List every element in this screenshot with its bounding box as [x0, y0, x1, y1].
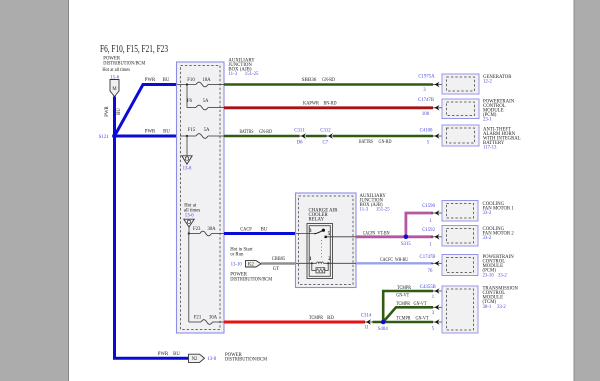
- relay K (double border box): [307, 224, 333, 279]
- svg-text:DISTRIBUTION/BCM: DISTRIBUTION/BCM: [103, 61, 146, 66]
- svg-text:VT-BN: VT-BN: [378, 231, 390, 236]
- svg-text:CACP: CACP: [240, 227, 252, 232]
- cooling fan motor 2 box: [442, 226, 478, 247]
- svg-text:K2: K2: [248, 263, 254, 268]
- svg-text:5A: 5A: [203, 99, 209, 104]
- svg-text:5A: 5A: [204, 128, 210, 133]
- svg-text:TCMPR: TCMPR: [397, 286, 412, 291]
- svg-text:13-8: 13-8: [207, 357, 216, 362]
- wire BATTRS GN-RD (green, left segment): [224, 135, 300, 138]
- wire diagonal S121 to top feed: [115, 85, 178, 137]
- svg-text:D6: D6: [297, 141, 303, 146]
- right gray margin band: [574, 0, 600, 381]
- svg-text:18A: 18A: [202, 78, 211, 83]
- wire KAPWR BN-RD (dark red, to PCM): [224, 106, 433, 109]
- svg-text:BU: BU: [173, 352, 180, 357]
- svg-text:151-25: 151-25: [245, 72, 259, 77]
- svg-text:76: 76: [428, 269, 433, 274]
- svg-text:BU: BU: [261, 227, 268, 232]
- svg-text:GN-VT: GN-VT: [396, 293, 409, 298]
- svg-text:M: M: [112, 87, 117, 92]
- svg-text:F15: F15: [188, 128, 196, 133]
- svg-text:33-2: 33-2: [483, 211, 492, 216]
- connector C1590 pin 1: [422, 204, 446, 224]
- wire SBB36 GN-RD (green, to generator): [224, 83, 433, 86]
- connector C1592 pin 1: [422, 228, 446, 247]
- svg-text:C312: C312: [320, 128, 331, 133]
- fuse F21 30A: [189, 316, 224, 325]
- wire PWR BU vertical from M down and across to N2: [115, 97, 189, 359]
- wire BATTRS middle segment: [306, 135, 327, 138]
- splice S121: [112, 134, 117, 139]
- svg-text:PWR: PWR: [158, 352, 169, 357]
- cooling fan motor 2 label: [483, 227, 515, 241]
- svg-text:BU: BU: [117, 108, 122, 115]
- svg-text:C314: C314: [361, 314, 372, 319]
- relay pin 5: [325, 236, 327, 238]
- connector C311 pin D6: [294, 128, 306, 145]
- svg-text:CACFC: CACFC: [380, 258, 393, 263]
- connector C4355B pin 1: [420, 285, 447, 300]
- junction dot F23: [188, 232, 190, 234]
- connector pin 3: [431, 305, 447, 317]
- svg-text:30A: 30A: [207, 227, 216, 232]
- svg-text:100: 100: [422, 112, 430, 117]
- svg-text:WH-BU: WH-BU: [395, 258, 408, 263]
- svg-text:C1592: C1592: [422, 228, 435, 233]
- svg-text:F10: F10: [187, 78, 195, 83]
- wire CACP BU (blue, to relay): [224, 232, 296, 235]
- connector C314 pin 11: [361, 314, 374, 331]
- relay suppression resistor: [312, 263, 328, 273]
- connector C312 pin C7: [320, 128, 333, 145]
- svg-text:33-2: 33-2: [497, 305, 506, 310]
- cooling fan motor 1 box: [442, 201, 478, 222]
- off-page triangle ref (above F23): [184, 219, 194, 227]
- svg-text:GN-RD: GN-RD: [259, 130, 272, 135]
- connector C1975A pin 3: [418, 75, 446, 93]
- label POWER DISTRIBUTION/BCM (K2): [230, 273, 273, 283]
- AJB relay label: [360, 194, 391, 213]
- connector M (power feed, pentagon down): [110, 80, 119, 97]
- relay switch arm: [314, 230, 323, 234]
- internal bus wire F23 to F21: [188, 234, 190, 323]
- auxiliary junction box (AJB) relay section: [296, 193, 357, 288]
- svg-text:BU: BU: [163, 130, 170, 135]
- svg-text:13-8: 13-8: [183, 167, 192, 172]
- svg-text:11-3: 11-3: [360, 208, 369, 213]
- svg-text:C1747B: C1747B: [418, 98, 434, 103]
- svg-text:117-13: 117-13: [483, 146, 497, 151]
- svg-text:11-3: 11-3: [228, 72, 237, 77]
- relay pin 3 input wire: [296, 233, 315, 235]
- svg-text:13-10: 13-10: [231, 262, 243, 267]
- PCM box (bottom): [442, 255, 478, 276]
- svg-text:GT: GT: [273, 267, 279, 272]
- wire TCMPR GN-VT to S404: [373, 321, 434, 324]
- svg-text:GN-RD: GN-RD: [379, 140, 392, 145]
- charge air cooler relay label: [309, 209, 339, 223]
- svg-text:30A: 30A: [209, 316, 218, 321]
- connector K2 (pentagon right): [246, 261, 262, 268]
- svg-text:33-2: 33-2: [498, 273, 507, 278]
- connector C1747B pin 100: [418, 98, 447, 117]
- svg-text:KAPWR: KAPWR: [303, 101, 320, 106]
- splice S404: [381, 320, 386, 325]
- svg-text:or Run: or Run: [230, 253, 244, 258]
- svg-text:C4355B: C4355B: [420, 285, 436, 290]
- fuse F10 10A: [177, 78, 224, 87]
- svg-text:F23: F23: [193, 227, 201, 232]
- svg-text:23-1: 23-1: [483, 118, 492, 123]
- svg-text:S121: S121: [99, 135, 109, 140]
- generator label: [483, 75, 512, 85]
- connector pin 5: [431, 319, 447, 331]
- svg-text:RD: RD: [327, 316, 334, 321]
- svg-text:BATTRS: BATTRS: [240, 130, 254, 135]
- TCM box: [442, 286, 478, 333]
- svg-text:S315: S315: [401, 242, 411, 247]
- connector C1747B pin 76: [420, 255, 447, 274]
- PCM box (top): [442, 99, 479, 119]
- PCM label (top): [483, 100, 515, 123]
- svg-text:S404: S404: [378, 327, 388, 332]
- generator box: [442, 74, 479, 94]
- auxiliary junction box (AJB) fuse panel: [177, 62, 225, 333]
- svg-text:TCMPR: TCMPR: [396, 302, 411, 307]
- svg-text:13-6: 13-6: [185, 213, 194, 218]
- svg-text:CACFN: CACFN: [363, 231, 376, 236]
- wire BATTRS GN-RD (green, right segment): [333, 135, 433, 138]
- svg-text:PWR: PWR: [145, 78, 156, 83]
- wire S404 up to TCM pin 1: [383, 291, 433, 322]
- wire CBB05 GT (gray): [261, 262, 296, 264]
- svg-text:RELAY: RELAY: [309, 218, 325, 223]
- wire S315 to fan motor 2: [406, 235, 433, 238]
- PCM label (bottom): [483, 255, 515, 278]
- svg-text:BN-RD: BN-RD: [324, 101, 337, 106]
- anti-theft alarm horn box: [442, 125, 479, 146]
- svg-text:151-25: 151-25: [376, 208, 390, 213]
- svg-text:GN-VT: GN-VT: [414, 302, 427, 307]
- label POWER DISTRIBUTION/BCM (top left): [102, 57, 146, 74]
- svg-text:12-2: 12-2: [483, 79, 492, 84]
- svg-text:BATTRS: BATTRS: [359, 140, 373, 145]
- left gray margin band: [0, 0, 69, 381]
- wire triangle to F23: [188, 227, 190, 234]
- svg-text:PWR: PWR: [105, 106, 110, 117]
- relay armature dotted link: [321, 240, 323, 259]
- off-page triangle ref (below F15): [182, 156, 192, 172]
- svg-text:CBB05: CBB05: [272, 257, 286, 262]
- junction dot F10 branch: [186, 83, 188, 85]
- wire branch to F6: [186, 85, 188, 108]
- connector C4100 pin 5: [420, 128, 447, 145]
- svg-text:30-1: 30-1: [483, 305, 492, 310]
- svg-text:F6: F6: [187, 99, 193, 104]
- svg-text:TCMPR: TCMPR: [397, 317, 412, 322]
- svg-text:N2: N2: [192, 357, 198, 362]
- wire S121 to fuse F15: [115, 135, 178, 138]
- svg-text:SBB36: SBB36: [302, 78, 317, 83]
- svg-text:TCMPR: TCMPR: [309, 316, 324, 321]
- wire TCMPR RD (red, from F21): [224, 321, 365, 324]
- svg-text:BU: BU: [163, 78, 170, 83]
- wire CACFN VT-BN (violet, to fan motors): [356, 235, 406, 238]
- svg-text:C4100: C4100: [420, 128, 433, 133]
- connector N2 (pentagon right): [189, 354, 205, 362]
- svg-text:GN-RD: GN-RD: [322, 78, 335, 83]
- svg-text:33-2: 33-2: [483, 236, 492, 241]
- svg-text:F21: F21: [194, 316, 202, 321]
- svg-text:DISTRIBUTION/BCM: DISTRIBUTION/BCM: [225, 358, 268, 363]
- svg-text:C1747B: C1747B: [420, 255, 436, 260]
- relay coil: [316, 262, 323, 263]
- wire to ground ref triangle: [186, 136, 188, 156]
- Hot at all times (F23 feed): [184, 204, 201, 219]
- relay pin 1: [296, 262, 316, 264]
- fuse F6 5A: [187, 99, 224, 110]
- svg-text:DISTRIBUTION/BCM: DISTRIBUTION/BCM: [230, 277, 273, 282]
- svg-text:23-10: 23-10: [483, 273, 495, 278]
- Hot in Start or Run (K2 feed): [230, 248, 253, 268]
- AJB label: [228, 58, 259, 77]
- relay pin 2: [324, 262, 356, 264]
- svg-text:GN-VT: GN-VT: [416, 317, 429, 322]
- junction dot F15 branch: [186, 135, 188, 137]
- svg-text:C7: C7: [322, 141, 328, 146]
- cooling fan motor 1 label: [483, 202, 515, 216]
- wire CACFC WH-BU (light blue, to PCM): [356, 262, 433, 264]
- fuse F15 5A: [180, 128, 224, 138]
- TCM label: [483, 287, 519, 310]
- fuse F23 30A: [189, 227, 224, 236]
- wire S315 up to fan motor 1: [406, 213, 433, 237]
- wire S404 to TCM pin 3: [383, 307, 433, 322]
- svg-text:F6, F10, F15, F21, F23: F6, F10, F15, F21, F23: [100, 44, 168, 55]
- svg-text:PWR: PWR: [145, 130, 156, 135]
- svg-text:C1590: C1590: [422, 204, 435, 209]
- svg-text:Hot at all times: Hot at all times: [102, 68, 130, 73]
- anti-theft label: [483, 128, 521, 151]
- svg-text:11: 11: [364, 325, 369, 330]
- svg-text:C1975A: C1975A: [418, 75, 435, 80]
- label POWER DISTRIBUTION/BCM (bottom): [225, 353, 268, 363]
- splice S315: [404, 235, 409, 240]
- svg-text:C311: C311: [294, 128, 305, 133]
